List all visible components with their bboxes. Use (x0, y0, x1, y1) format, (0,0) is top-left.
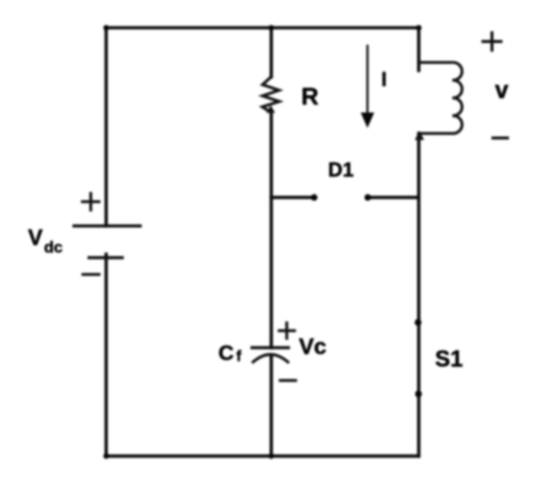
resistor R zigzag (262, 77, 279, 113)
inductor bottom arrowhead (415, 131, 424, 140)
wire D1 row right segment (368, 196, 419, 199)
svg-text:S1: S1 (435, 346, 463, 372)
junction dot bottom-left (103, 453, 109, 459)
capacitor Cf curved plate (252, 354, 289, 363)
capacitor Cf top plate (250, 346, 289, 349)
switch S1 terminal dot bottom (415, 391, 422, 398)
battery minus sign (81, 273, 100, 276)
diode D1 terminal dot left (311, 194, 318, 201)
svg-text:V: V (28, 225, 43, 250)
svg-text:D1: D1 (328, 159, 354, 181)
junction dot top-left (103, 25, 109, 31)
diode D1 terminal dot right (364, 194, 371, 201)
wire middle branch mid (resistor to capacitor) (270, 112, 273, 347)
resistor bottom arrowhead (266, 105, 275, 113)
svg-text:I: I (381, 69, 387, 91)
wire D1 row left segment (271, 196, 314, 199)
wire right vertical upper (top to inductor) (417, 28, 420, 71)
svg-text:R: R (301, 84, 318, 111)
capacitor minus sign (279, 379, 297, 382)
svg-text:C: C (218, 341, 234, 365)
switch S1 terminal dot top (415, 319, 422, 326)
svg-text:v: v (495, 77, 509, 104)
inductor L coil (419, 62, 462, 133)
junction dot top-middle (268, 25, 274, 31)
inductor plus sign (481, 31, 502, 51)
wire middle branch upper (top to resistor) (270, 28, 273, 77)
current arrow I (361, 45, 375, 128)
battery plus sign (81, 192, 101, 212)
wire right vertical mid (inductor to bottom corner) (417, 133, 420, 456)
inductor minus sign (491, 136, 509, 139)
wire left vertical lower (battery - to bottom) (104, 254, 107, 456)
battery Vdc plates (72, 226, 141, 258)
wire middle branch lower (capacitor to bottom) (270, 356, 273, 456)
svg-text:f: f (236, 348, 242, 365)
wire left vertical upper (top to battery +) (104, 28, 107, 226)
wire bottom horizontal (106, 454, 419, 457)
wire top horizontal (106, 26, 419, 29)
capacitor plus sign (278, 321, 296, 339)
svg-text:dc: dc (44, 239, 63, 256)
junction dot top-right (416, 25, 422, 31)
svg-text:Vc: Vc (299, 334, 327, 359)
junction dot bottom-middle (268, 453, 274, 459)
